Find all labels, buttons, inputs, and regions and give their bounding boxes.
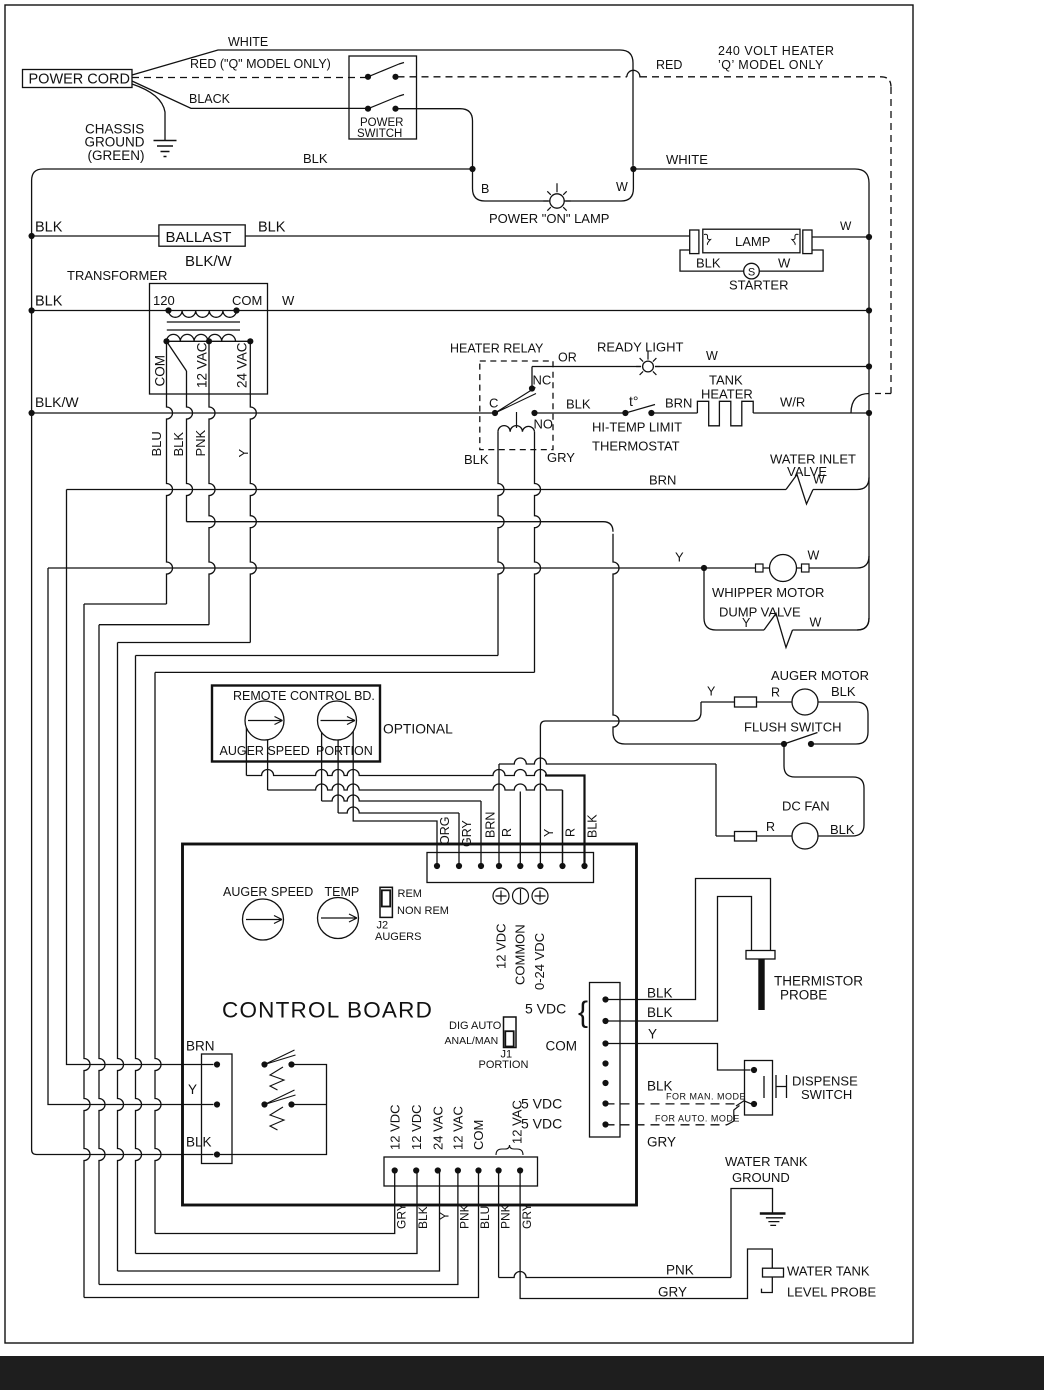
svg-text:LAMP: LAMP bbox=[735, 234, 770, 249]
svg-text:BLK: BLK bbox=[416, 1206, 430, 1229]
hi-temp limit thermostat bbox=[622, 410, 628, 416]
svg-text:W: W bbox=[840, 219, 852, 233]
svg-text:NON REM: NON REM bbox=[397, 905, 449, 917]
chassis ground (green) bbox=[132, 84, 165, 140]
svg-text:BLK: BLK bbox=[647, 986, 673, 1001]
svg-text:GRY: GRY bbox=[647, 1135, 676, 1150]
node: rail/BLK-W junction bbox=[29, 410, 35, 416]
svg-text:DC FAN: DC FAN bbox=[782, 799, 830, 814]
svg-text:WHITE: WHITE bbox=[666, 152, 708, 167]
wire white bbox=[132, 50, 633, 166]
wire Y auger feed bbox=[692, 702, 701, 721]
wire red (dashed, Q model) bbox=[132, 77, 366, 79]
svg-text:5 VDC: 5 VDC bbox=[521, 1096, 562, 1112]
wire lamp to rail W bbox=[812, 236, 869, 238]
wire PNK bbox=[209, 341, 215, 624]
svg-text:12 VAC: 12 VAC bbox=[451, 1106, 466, 1150]
svg-text:W: W bbox=[616, 180, 628, 194]
svg-text:WATER TANK: WATER TANK bbox=[787, 1264, 870, 1279]
pot portion bbox=[318, 701, 357, 740]
svg-text:BLK/W: BLK/W bbox=[185, 253, 233, 270]
wire R dc fan (line A) bbox=[498, 764, 500, 866]
svg-text:COM: COM bbox=[153, 355, 168, 387]
svg-text:R: R bbox=[766, 820, 775, 834]
wire BLK/W bbox=[32, 412, 495, 414]
node: switch/lamp junction bbox=[469, 166, 475, 172]
svg-text:BLK: BLK bbox=[171, 432, 186, 457]
wire W/R bbox=[753, 412, 869, 414]
svg-text:ANAL/MAN: ANAL/MAN bbox=[445, 1035, 499, 1047]
wire relay coil BLK bbox=[498, 432, 504, 656]
wire Y nest bbox=[118, 642, 251, 644]
power on lamp bbox=[473, 169, 550, 201]
svg-text:SWITCH: SWITCH bbox=[357, 128, 402, 140]
svg-text:POWER CORD: POWER CORD bbox=[29, 72, 131, 88]
svg-text:COM: COM bbox=[471, 1120, 486, 1150]
svg-text:GROUND: GROUND bbox=[732, 1170, 790, 1185]
wire BLU bbox=[167, 341, 173, 604]
brace 12vac bbox=[496, 1145, 523, 1155]
svg-text:24 VAC: 24 VAC bbox=[431, 1106, 446, 1150]
svg-text:SWITCH: SWITCH bbox=[801, 1087, 852, 1102]
svg-text:GRY: GRY bbox=[520, 1203, 534, 1229]
svg-text:W: W bbox=[810, 616, 822, 630]
svg-text:HEATER RELAY: HEATER RELAY bbox=[450, 342, 544, 356]
svg-text:R: R bbox=[771, 686, 780, 700]
svg-text:WATER TANK: WATER TANK bbox=[725, 1154, 808, 1169]
wire Y dump valve bbox=[704, 568, 764, 630]
svg-text:THERMISTOR: THERMISTOR bbox=[774, 974, 863, 989]
svg-text:’Q’ MODEL ONLY: ’Q’ MODEL ONLY bbox=[718, 58, 824, 72]
ballast bbox=[159, 225, 245, 246]
board switch 2 bbox=[261, 1101, 267, 1107]
svg-text:120: 120 bbox=[153, 293, 175, 308]
bottom bar bbox=[0, 1356, 1044, 1390]
wire ORG remote bbox=[353, 731, 437, 866]
svg-text:PNK: PNK bbox=[458, 1204, 472, 1229]
svg-text:Y: Y bbox=[675, 550, 684, 565]
svg-text:OR: OR bbox=[558, 351, 577, 365]
svg-text:AUGER MOTOR: AUGER MOTOR bbox=[771, 668, 869, 683]
svg-text:COMMON: COMMON bbox=[513, 924, 528, 985]
svg-text:CONTROL BOARD: CONTROL BOARD bbox=[222, 998, 433, 1023]
svg-text:BALLAST: BALLAST bbox=[166, 229, 232, 246]
svg-text:COM: COM bbox=[546, 1039, 578, 1054]
wire from switch to node B bbox=[396, 109, 473, 169]
svg-text:Y: Y bbox=[188, 1082, 197, 1097]
svg-text:BLK: BLK bbox=[464, 452, 489, 467]
svg-text:WHIPPER MOTOR: WHIPPER MOTOR bbox=[712, 585, 824, 600]
svg-text:NC: NC bbox=[533, 373, 552, 388]
water tank ground bbox=[760, 1212, 786, 1214]
svg-text:TEMP: TEMP bbox=[325, 885, 360, 899]
svg-text:NO: NO bbox=[534, 417, 554, 432]
wire GRY relay nest bbox=[155, 671, 535, 673]
svg-text:5 VDC: 5 VDC bbox=[521, 1116, 562, 1132]
svg-text:BRN: BRN bbox=[665, 396, 692, 411]
svg-text:W: W bbox=[282, 293, 295, 308]
svg-text:(GREEN): (GREEN) bbox=[88, 148, 145, 163]
svg-text:REMOTE CONTROL BD.: REMOTE CONTROL BD. bbox=[233, 689, 375, 703]
water tank level probe bbox=[763, 1268, 784, 1277]
relay coil bbox=[498, 426, 535, 432]
svg-text:12 VDC: 12 VDC bbox=[388, 1104, 403, 1150]
wire BLK ballast left bbox=[32, 235, 159, 237]
svg-text:FOR MAN. MODE: FOR MAN. MODE bbox=[666, 1092, 746, 1102]
svg-text:PNK: PNK bbox=[193, 429, 208, 456]
wire BRN remote bbox=[321, 733, 323, 802]
svg-text:BLK/W: BLK/W bbox=[35, 394, 79, 410]
svg-text:240 VOLT HEATER: 240 VOLT HEATER bbox=[718, 44, 835, 58]
bottom connector J5 bbox=[384, 1157, 538, 1186]
svg-text:OPTIONAL: OPTIONAL bbox=[383, 722, 453, 737]
svg-text:GRY: GRY bbox=[547, 450, 575, 465]
svg-text:BLK: BLK bbox=[647, 1005, 673, 1020]
board switch 1 bbox=[261, 1061, 267, 1067]
dump valve bbox=[764, 614, 793, 648]
wire BLK ballast right bbox=[245, 235, 690, 237]
svg-text:BLK: BLK bbox=[258, 220, 286, 236]
wire PNK nest bbox=[99, 624, 209, 626]
svg-text:GRY: GRY bbox=[460, 819, 474, 847]
svg-text:DIG AUTO: DIG AUTO bbox=[449, 1020, 502, 1032]
wire BRN left (to BRN terminal) bbox=[67, 490, 214, 1065]
wire BRN bbox=[651, 412, 697, 414]
svg-text:BRN: BRN bbox=[484, 812, 498, 838]
svg-text:BLK: BLK bbox=[303, 151, 328, 166]
svg-text:BRN: BRN bbox=[649, 473, 676, 488]
secondary bbox=[167, 340, 251, 342]
svg-text:BLK: BLK bbox=[830, 822, 855, 837]
transformer T1 bbox=[150, 284, 268, 395]
svg-text:5 VDC: 5 VDC bbox=[525, 1001, 566, 1017]
polarity symbols bbox=[493, 888, 509, 904]
svg-text:GRY: GRY bbox=[395, 1203, 409, 1229]
svg-text:12 VDC: 12 VDC bbox=[409, 1104, 424, 1150]
wire 5VDC man mode (dashed) bbox=[606, 1103, 737, 1105]
svg-text:BLK: BLK bbox=[35, 294, 63, 310]
wire auger Y to pin6 bbox=[539, 727, 541, 867]
node: rail/120V junction bbox=[29, 307, 35, 313]
svg-text:BRN: BRN bbox=[186, 1039, 215, 1054]
svg-text:COM: COM bbox=[232, 293, 262, 308]
wire white right bbox=[633, 169, 869, 183]
svg-text:BLACK: BLACK bbox=[189, 92, 231, 106]
power switch S1 bbox=[349, 56, 417, 139]
jumper J2 bbox=[380, 887, 392, 917]
flush switch bbox=[781, 741, 787, 747]
svg-text:BLK: BLK bbox=[566, 397, 591, 412]
node: rail junctions bbox=[866, 234, 872, 240]
wire BLK thermistor outer bbox=[606, 879, 771, 1000]
node whipper junction bbox=[701, 565, 707, 571]
wire BLK top bbox=[32, 169, 43, 181]
svg-text:REM: REM bbox=[398, 888, 422, 900]
wire W rail right bbox=[857, 183, 869, 630]
wire BLK to flush switch bbox=[187, 522, 614, 532]
svg-text:FLUSH SWITCH: FLUSH SWITCH bbox=[744, 720, 842, 735]
svg-text:PORTION: PORTION bbox=[479, 1059, 529, 1071]
wire Y bbox=[250, 341, 256, 642]
wire BLK relay nest bbox=[136, 655, 499, 657]
wire relay coil GRY bbox=[535, 432, 541, 673]
svg-text:B: B bbox=[481, 182, 489, 196]
svg-text:W/R: W/R bbox=[780, 395, 805, 410]
wire 5VDC auto mode (dashed) bbox=[606, 1124, 728, 1126]
svg-text:W: W bbox=[778, 256, 791, 271]
svg-text:PROBE: PROBE bbox=[780, 988, 827, 1003]
remote control board bbox=[212, 686, 380, 762]
wire PNK to ground bbox=[499, 1272, 731, 1278]
svg-text:BLK: BLK bbox=[696, 256, 721, 271]
svg-text:{: { bbox=[578, 996, 588, 1029]
svg-text:0-24 VDC: 0-24 VDC bbox=[532, 933, 547, 990]
water inlet valve bbox=[786, 475, 813, 505]
wire switches to BLK bbox=[220, 1065, 327, 1155]
svg-text:AUGER SPEED: AUGER SPEED bbox=[223, 885, 313, 899]
wire BLK (line B bold) bbox=[245, 728, 247, 776]
heater relay K1 bbox=[480, 361, 553, 450]
wire BLK relay NO bbox=[535, 412, 626, 414]
svg-text:W: W bbox=[706, 349, 718, 363]
wire BLK rail left bbox=[32, 181, 214, 1155]
power cord bbox=[23, 70, 133, 88]
svg-text:STARTER: STARTER bbox=[729, 278, 788, 293]
control board bbox=[183, 844, 637, 1205]
svg-text:Y: Y bbox=[707, 685, 716, 699]
svg-text:J2: J2 bbox=[377, 920, 389, 932]
svg-text:BLU: BLU bbox=[149, 431, 164, 456]
wire flush to fan bbox=[784, 744, 864, 836]
svg-text:W: W bbox=[808, 549, 820, 563]
svg-text:12 VAC: 12 VAC bbox=[195, 342, 210, 388]
svg-text:DUMP VALVE: DUMP VALVE bbox=[719, 605, 801, 620]
wire OR bbox=[532, 366, 641, 368]
node: rail/ballast junction bbox=[29, 233, 35, 239]
ready light bbox=[643, 361, 654, 372]
svg-text:TRANSFORMER: TRANSFORMER bbox=[67, 268, 167, 283]
svg-text:BLU: BLU bbox=[478, 1206, 492, 1229]
node W white junction bbox=[630, 166, 636, 172]
thermistor probe bbox=[746, 951, 775, 960]
top connector J3 bbox=[427, 853, 594, 883]
svg-text:ORG: ORG bbox=[438, 817, 452, 845]
svg-text:PNK: PNK bbox=[666, 1263, 694, 1278]
starter loop bbox=[680, 250, 823, 271]
svg-text:RED: RED bbox=[656, 58, 682, 72]
wire BRN valve bbox=[67, 489, 787, 491]
svg-text:Y: Y bbox=[236, 449, 251, 458]
left terminal block bbox=[202, 1054, 233, 1164]
starter S bbox=[744, 263, 760, 279]
svg-text:BLK: BLK bbox=[186, 1135, 212, 1150]
dispense switch bbox=[745, 1061, 773, 1116]
wire BLK thermistor inner bbox=[606, 897, 752, 1022]
tank heater R1 bbox=[697, 401, 753, 426]
svg-text:HEATER: HEATER bbox=[701, 387, 753, 402]
wire BLK tap bbox=[167, 341, 187, 371]
svg-text:BLK: BLK bbox=[831, 684, 856, 699]
pot auger speed bbox=[245, 701, 284, 740]
svg-text:FOR AUTO. MODE: FOR AUTO. MODE bbox=[655, 1114, 740, 1124]
wire black bbox=[132, 81, 368, 108]
wire red 240V drop bbox=[872, 393, 891, 395]
svg-text:C: C bbox=[489, 396, 498, 411]
wire BLK 120V bbox=[32, 310, 869, 312]
wire GRY to level probe bbox=[520, 1171, 772, 1299]
svg-text:TANK: TANK bbox=[709, 373, 743, 388]
svg-text:R: R bbox=[564, 828, 578, 837]
svg-text:THERMOSTAT: THERMOSTAT bbox=[592, 439, 680, 454]
wire Y whipper bbox=[48, 567, 756, 569]
svg-text:Y: Y bbox=[648, 1027, 657, 1042]
svg-text:LEVEL PROBE: LEVEL PROBE bbox=[787, 1285, 876, 1300]
svg-text:GRY: GRY bbox=[658, 1285, 687, 1300]
wire Y left (to Y terminal) bbox=[48, 568, 214, 1105]
whipper motor M1 bbox=[756, 564, 764, 572]
svg-text:HI-TEMP LIMIT: HI-TEMP LIMIT bbox=[592, 420, 682, 435]
svg-text:PORTION: PORTION bbox=[316, 744, 373, 758]
wire Y dispense bbox=[606, 1044, 751, 1071]
svg-text:12 VAC: 12 VAC bbox=[510, 1100, 525, 1144]
svg-text:RED ("Q" MODEL ONLY): RED ("Q" MODEL ONLY) bbox=[190, 57, 331, 71]
svg-text:READY LIGHT: READY LIGHT bbox=[597, 340, 684, 355]
svg-text:Y: Y bbox=[742, 616, 751, 630]
wire GRY remote bbox=[337, 740, 339, 813]
svg-text:AUGERS: AUGERS bbox=[375, 931, 421, 943]
svg-text:R: R bbox=[500, 828, 514, 837]
svg-text:24 VAC: 24 VAC bbox=[235, 342, 250, 388]
right connector J4 bbox=[590, 983, 621, 1138]
svg-text:Y: Y bbox=[542, 828, 556, 837]
svg-text:AUGER SPEED: AUGER SPEED bbox=[220, 744, 310, 758]
core bbox=[167, 322, 240, 330]
wire BLU nest bbox=[84, 603, 167, 605]
svg-text:12 VDC: 12 VDC bbox=[494, 923, 509, 969]
svg-text:PNK: PNK bbox=[499, 1204, 513, 1229]
wire pin5 stub bbox=[519, 792, 521, 867]
svg-text:BLK: BLK bbox=[586, 814, 600, 838]
svg-text:POWER "ON" LAMP: POWER "ON" LAMP bbox=[489, 211, 609, 226]
svg-text:W: W bbox=[813, 473, 825, 487]
fluorescent lamp bbox=[703, 229, 800, 253]
svg-text:WHITE: WHITE bbox=[228, 35, 268, 49]
svg-text:BLK: BLK bbox=[35, 220, 63, 236]
svg-text:t°: t° bbox=[629, 393, 639, 409]
wire R (line C) bbox=[267, 740, 269, 790]
